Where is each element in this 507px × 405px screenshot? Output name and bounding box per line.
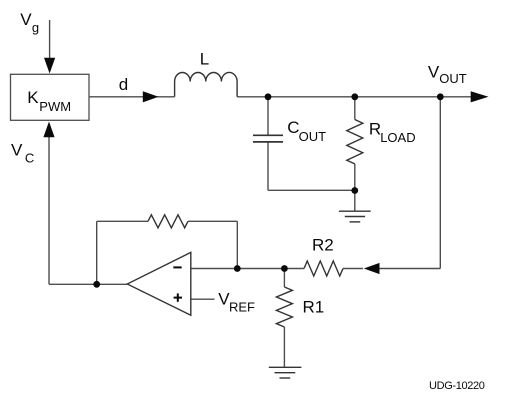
svg-text:PWM: PWM (39, 99, 71, 114)
svg-text:g: g (32, 20, 39, 35)
svg-text:d: d (119, 75, 128, 94)
svg-text:UDG-10220: UDG-10220 (429, 380, 485, 392)
svg-text:OUT: OUT (439, 71, 467, 86)
svg-text:V: V (428, 63, 440, 82)
svg-text:LOAD: LOAD (380, 130, 415, 145)
svg-text:V: V (11, 140, 23, 159)
svg-text:V: V (20, 10, 32, 29)
svg-text:OUT: OUT (299, 129, 327, 144)
svg-text:K: K (27, 88, 39, 107)
svg-text:C: C (25, 151, 34, 166)
svg-text:R2: R2 (312, 236, 334, 255)
svg-text:L: L (200, 50, 209, 69)
svg-text:R1: R1 (303, 298, 325, 317)
svg-text:REF: REF (229, 299, 255, 314)
